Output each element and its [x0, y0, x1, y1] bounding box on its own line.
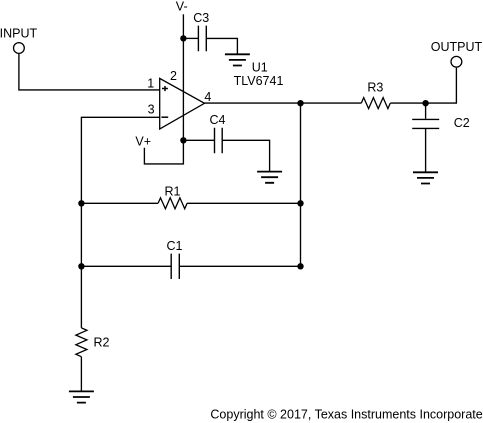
capacitor C4	[215, 128, 223, 154]
svg-text:TLV6741: TLV6741	[234, 74, 284, 88]
capacitor C1	[171, 254, 179, 279]
node output / feedback junction	[297, 100, 303, 106]
svg-text:Copyright © 2017, Texas Instru: Copyright © 2017, Texas Instruments Inco…	[210, 407, 483, 421]
svg-text:2: 2	[170, 69, 177, 83]
input terminal	[14, 43, 25, 54]
svg-text:R3: R3	[367, 80, 383, 94]
resistor R2	[76, 328, 87, 357]
ground (R2)	[69, 391, 94, 402]
ground (C2)	[413, 172, 438, 183]
op-amp U1	[160, 78, 205, 129]
svg-text:R2: R2	[94, 336, 110, 350]
ground (C3)	[225, 54, 250, 65]
wire C2 junction to C2	[425, 103, 427, 119]
wire C2 to ground	[425, 128, 427, 172]
wire input to pin 1	[19, 54, 160, 90]
resistor R1	[158, 198, 187, 209]
node V- / C3 junction	[180, 35, 186, 41]
wire V- supply through op-amp to V+ node	[182, 14, 184, 140]
wire R3 to output terminal	[390, 68, 456, 104]
node feedback / C1 junction	[78, 263, 84, 269]
node R1 right junction	[297, 200, 303, 206]
capacitor C2	[412, 119, 439, 128]
capacitor C3	[198, 26, 206, 52]
svg-text:R1: R1	[165, 184, 181, 198]
svg-text:4: 4	[204, 90, 211, 104]
node V+ / C4 junction	[180, 137, 186, 143]
wire op-amp output to R3	[205, 102, 362, 104]
svg-text:C2: C2	[454, 116, 470, 130]
wire R1 row	[81, 202, 300, 204]
ground (C4)	[257, 172, 282, 183]
resistor R3	[361, 98, 390, 109]
wire C1 row	[81, 265, 300, 267]
svg-text:V+: V+	[135, 134, 151, 148]
svg-text:3: 3	[148, 103, 155, 117]
wire V- node to C3	[183, 37, 198, 39]
output terminal	[451, 56, 462, 67]
wire output node down right column	[300, 103, 302, 266]
node feedback / R1 junction	[78, 200, 84, 206]
svg-text:C4: C4	[210, 113, 226, 127]
svg-text:1: 1	[147, 77, 154, 91]
svg-text:INPUT: INPUT	[0, 27, 37, 41]
wire V+ to supply node	[144, 140, 183, 164]
svg-text:C1: C1	[167, 239, 183, 253]
wire C4 to ground	[222, 140, 269, 171]
wire V+ node to C4	[183, 139, 214, 141]
svg-text:C3: C3	[193, 11, 209, 25]
wire R2 to ground	[80, 357, 82, 392]
svg-text:U1: U1	[252, 61, 268, 75]
node C1 right junction	[297, 263, 303, 269]
svg-text:OUTPUT: OUTPUT	[431, 40, 483, 54]
node C2 junction	[422, 100, 428, 106]
wire pin 3 to feedback column	[81, 117, 159, 328]
svg-text:V-: V-	[176, 0, 188, 14]
wire C3 to ground	[206, 38, 237, 54]
